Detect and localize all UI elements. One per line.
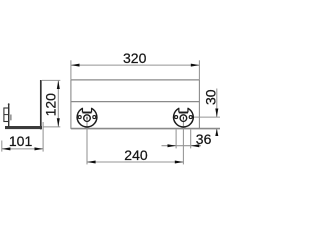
svg-text:240: 240 [124,147,148,163]
svg-text:120: 120 [43,93,59,117]
svg-text:320: 320 [123,50,147,66]
svg-text:101: 101 [9,133,33,149]
svg-text:30: 30 [203,89,219,105]
svg-text:36: 36 [196,131,212,147]
